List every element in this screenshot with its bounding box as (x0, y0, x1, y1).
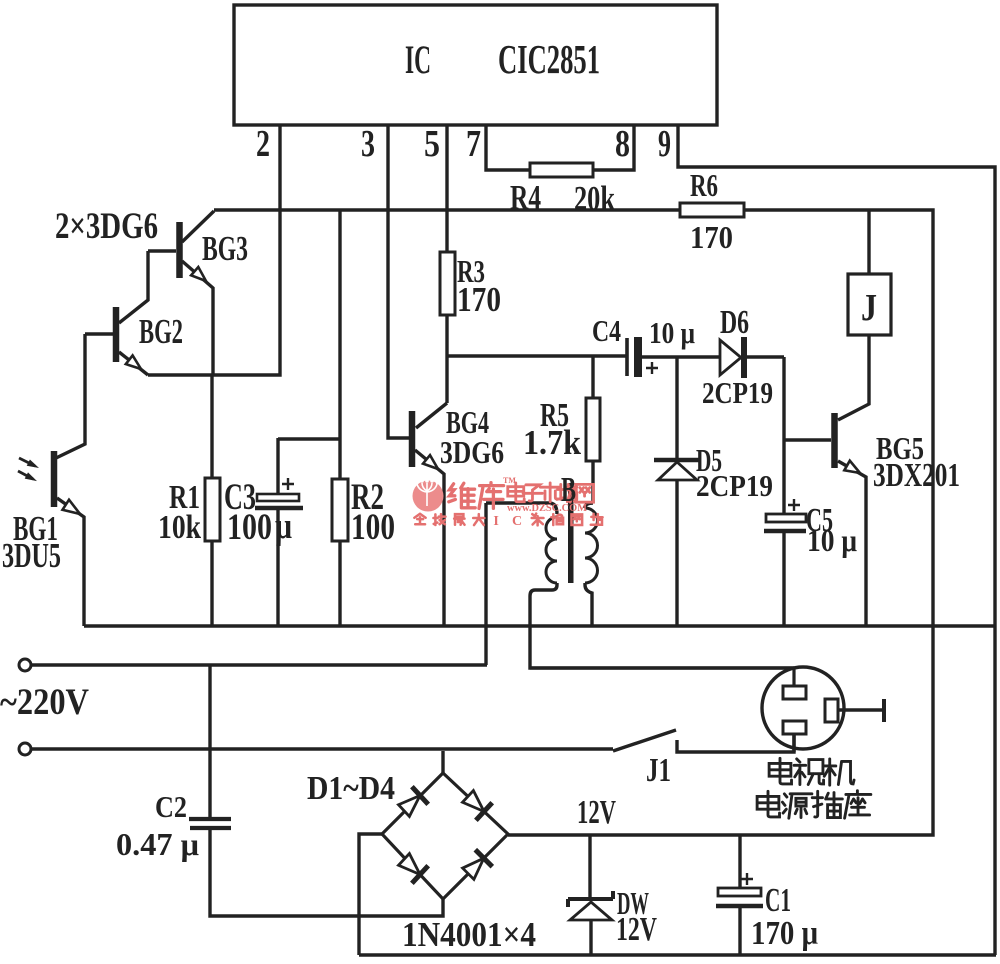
svg-text:170: 170 (690, 219, 733, 255)
svg-text:12V: 12V (616, 911, 657, 948)
svg-text:I: I (493, 514, 498, 529)
svg-text:J: J (861, 287, 877, 329)
svg-text:2: 2 (256, 123, 270, 165)
svg-text:IC: IC (405, 37, 431, 82)
svg-text:7: 7 (466, 123, 481, 165)
svg-text:2×3DG6: 2×3DG6 (55, 205, 158, 246)
svg-text:TM: TM (503, 476, 516, 485)
svg-text:20k: 20k (574, 179, 615, 218)
svg-text:2CP19: 2CP19 (702, 376, 773, 410)
svg-text:10 μ: 10 μ (649, 316, 695, 350)
svg-text:170 μ: 170 μ (751, 915, 818, 952)
svg-text:C4: C4 (592, 314, 621, 348)
svg-text:100: 100 (227, 506, 272, 547)
svg-text:C: C (512, 514, 522, 529)
svg-text:0.47 μ: 0.47 μ (116, 826, 199, 862)
svg-text:R6: R6 (690, 167, 718, 203)
svg-text:C2: C2 (155, 790, 187, 824)
svg-text:R4: R4 (510, 178, 541, 217)
svg-text:J1: J1 (646, 752, 671, 789)
svg-text:1N4001×4: 1N4001×4 (402, 915, 536, 954)
svg-text:3DG6: 3DG6 (440, 434, 504, 470)
svg-text:170: 170 (457, 280, 501, 319)
svg-text:5: 5 (424, 123, 440, 165)
svg-text:3DX201: 3DX201 (873, 457, 960, 494)
svg-text:8: 8 (615, 123, 630, 165)
svg-text:10 μ: 10 μ (807, 522, 857, 558)
svg-text:100: 100 (351, 506, 395, 547)
svg-text:3DU5: 3DU5 (2, 536, 61, 575)
svg-text:1.7k: 1.7k (523, 423, 581, 462)
svg-text:2CP19: 2CP19 (696, 469, 773, 503)
svg-text:9: 9 (658, 123, 671, 165)
svg-text:12V: 12V (577, 794, 616, 831)
svg-text:10k: 10k (158, 509, 201, 546)
svg-text:www.DZSC.COM: www.DZSC.COM (507, 503, 587, 514)
svg-text:C1: C1 (765, 882, 791, 919)
svg-text:3: 3 (361, 123, 375, 165)
svg-text:D1~D4: D1~D4 (307, 770, 395, 807)
svg-text:~220V: ~220V (0, 681, 89, 722)
svg-text:D6: D6 (720, 304, 749, 341)
svg-text:BG3: BG3 (202, 229, 248, 268)
svg-text:BG2: BG2 (139, 312, 183, 351)
svg-text:CIC2851: CIC2851 (498, 36, 600, 82)
svg-text:μ: μ (275, 505, 292, 546)
